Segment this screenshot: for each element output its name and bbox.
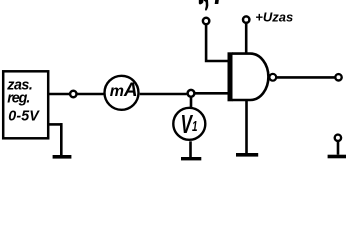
svg-text:0-5V: 0-5V [8,108,40,124]
svg-text:reg.: reg. [7,90,30,106]
svg-text:+Uzas: +Uzas [255,10,293,25]
svg-text:mA: mA [110,80,138,101]
